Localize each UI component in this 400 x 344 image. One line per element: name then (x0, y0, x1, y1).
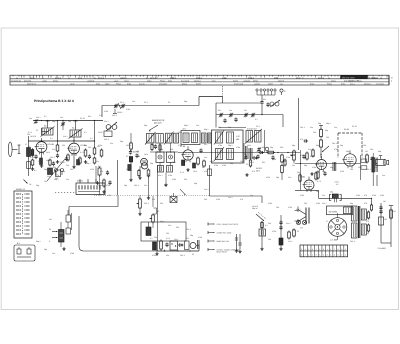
det circle (257, 147, 269, 152)
svg-text:C81: C81 (166, 232, 169, 235)
wire y198 bus (319, 198, 372, 205)
svg-text:GRAM: GRAM (77, 180, 83, 183)
svg-text:BERLIN: BERLIN (55, 76, 62, 79)
wire vertical x79 with bend (79, 216, 158, 251)
wire v2 bottom (73, 154, 75, 165)
tone control arrows (52, 231, 58, 238)
svg-text:BERLI: BERLI (372, 76, 377, 79)
svg-text:22n: 22n (196, 124, 199, 127)
fm box extra caps (223, 114, 262, 123)
box small2 (55, 170, 61, 180)
svg-text:OSLO: OSLO (331, 80, 336, 83)
svg-text:68: 68 (202, 166, 204, 169)
svg-text:22n 1: 22n 1 (288, 240, 293, 243)
svg-text:470k: 470k (214, 164, 218, 167)
svg-text:C81 4: C81 4 (350, 240, 355, 243)
trimmer row top (114, 103, 125, 109)
svg-text:470k: 470k (90, 168, 94, 171)
svg-text:470: 470 (366, 220, 369, 223)
svg-text:470k: 470k (316, 202, 320, 205)
svg-text:68p 2: 68p 2 (262, 146, 267, 149)
svg-text:22n: 22n (292, 228, 295, 231)
det resistor (267, 151, 276, 154)
svg-text:37: 37 (302, 76, 304, 79)
svg-text:22n: 22n (322, 194, 325, 197)
V7 resistors (297, 171, 317, 183)
espeaker cone (298, 207, 306, 225)
svg-text:ZF 46: ZF 46 (352, 125, 357, 128)
svg-text:22n: 22n (44, 180, 47, 183)
svg-text:470k: 470k (178, 144, 182, 147)
osc hatch 2 (167, 166, 173, 173)
svg-text:6: 6 (345, 248, 346, 251)
svg-text:ECH 81: ECH 81 (48, 143, 55, 146)
svg-text:PRAG: PRAG (160, 80, 165, 83)
svg-text:0.1 5: 0.1 5 (166, 237, 170, 240)
wire detector bus y152 (178, 152, 300, 154)
power resistors (288, 229, 296, 240)
wire vert x117.5 (117, 160, 119, 196)
svg-text:1M 4: 1M 4 (144, 153, 148, 156)
svg-text:68p: 68p (160, 148, 163, 151)
svg-text:ZF 46: ZF 46 (126, 155, 131, 158)
svg-text:C81: C81 (140, 166, 143, 169)
svg-text:2: 2 (316, 248, 317, 251)
ground g12 (310, 172, 313, 176)
svg-text:R12: R12 (262, 161, 265, 164)
wire x94 (95, 121, 97, 184)
earphone cylinder (376, 156, 389, 166)
svg-text:BERLIN: BERLIN (248, 76, 255, 79)
capacitor C3 (56, 154, 59, 159)
V5 lower parts (317, 171, 327, 184)
svg-text:C81: C81 (184, 178, 187, 181)
svg-text:68p: 68p (318, 122, 321, 125)
coil L1 label (44, 125, 46, 128)
tube V1 label (48, 143, 55, 146)
svg-text:Prinzipschema B 3 X 42 A: Prinzipschema B 3 X 42 A (34, 99, 75, 103)
dial strip right end cap (389, 75, 393, 85)
wire AVC left (202, 165, 212, 196)
svg-text:1M 4: 1M 4 (68, 149, 72, 152)
wire y206 routing (69, 196, 118, 215)
svg-text:1: 1 (327, 248, 328, 251)
svg-text:22n: 22n (96, 160, 99, 163)
svg-text:68p: 68p (330, 191, 333, 194)
svg-text:2: 2 (323, 254, 324, 257)
cap pair left of legend4 (235, 234, 242, 253)
svg-text:C81: C81 (228, 126, 231, 129)
svg-text:68p 2: 68p 2 (204, 128, 209, 131)
svg-text:28: 28 (380, 76, 382, 79)
svg-text:STAND FM / UKW: STAND FM / UKW (217, 231, 232, 234)
IF coil row box1 (145, 132, 156, 145)
right band extras (300, 149, 378, 191)
svg-text:0.1: 0.1 (50, 137, 53, 140)
svg-text:470k: 470k (356, 194, 360, 197)
svg-text:470k: 470k (218, 144, 222, 147)
small boxes left of winding (361, 155, 367, 180)
right IF labels (247, 125, 260, 147)
svg-text:460 kc/s: 460 kc/s (154, 122, 161, 125)
wire vert x298 top (298, 98, 300, 150)
tube V2 circle (67, 140, 79, 156)
svg-text:22n: 22n (132, 100, 135, 103)
svg-text:470k: 470k (272, 230, 276, 233)
loudspeaker circle (328, 218, 347, 237)
svg-text:68p: 68p (184, 100, 187, 103)
IF output winding bar (372, 153, 377, 181)
drawing number (378, 247, 387, 250)
svg-text:C81: C81 (137, 155, 140, 158)
svg-text:HILVERSUM: HILVERSUM (11, 80, 21, 83)
osc can leads (160, 143, 171, 153)
capacitor C2 (34, 155, 37, 160)
svg-text:MONTE: MONTE (278, 80, 285, 83)
svg-text:68p 2: 68p 2 (54, 178, 59, 181)
wire right bus y163.5 (295, 163, 361, 165)
tube V1 circle (35, 138, 47, 154)
svg-text:LONDON: LONDON (243, 80, 251, 83)
svg-text:22n: 22n (52, 252, 55, 255)
svg-text:BERO: BERO (253, 80, 258, 83)
svg-text:68p: 68p (304, 164, 307, 167)
svg-text:ZF 4: ZF 4 (172, 161, 176, 164)
svg-text:C81: C81 (326, 136, 329, 139)
dial row1 text clusters (30, 76, 377, 79)
ground g7 (129, 133, 132, 182)
pickup block label (77, 180, 83, 183)
legend row 1 (208, 223, 239, 226)
svg-text:22n 1: 22n 1 (104, 120, 109, 123)
svg-text:9: 9 (327, 254, 328, 257)
svg-text:64: 64 (68, 76, 70, 79)
svg-text:C81 4: C81 4 (126, 144, 131, 147)
svg-text:C81 4: C81 4 (104, 138, 109, 141)
mains label (252, 205, 258, 210)
switch box 2 label (17, 242, 21, 245)
resistor R4 (84, 149, 87, 158)
svg-text:0.1: 0.1 (90, 137, 93, 140)
dial station names row 2 (27, 83, 385, 86)
svg-text:5: 5 (319, 248, 320, 251)
det area labels (246, 163, 255, 173)
wire dash pointer (222, 86, 224, 97)
crystal arrow (180, 189, 186, 195)
wire bus step y105.5 (102, 106, 199, 118)
ground g6 (96, 181, 99, 185)
AF output cluster (153, 240, 200, 251)
svg-text:LILL: LILL (280, 83, 283, 86)
det coil bars (249, 148, 252, 159)
svg-text:470: 470 (56, 174, 59, 177)
V6 coil (333, 162, 336, 171)
tube V4 circle (181, 146, 193, 162)
svg-text:470k: 470k (380, 194, 384, 197)
volume pot (291, 150, 296, 164)
svg-text:3: 3 (305, 248, 306, 251)
svg-text:C81: C81 (176, 226, 179, 229)
svg-text:ATHLONE: ATHLONE (159, 83, 168, 86)
svg-text:AD 3700: AD 3700 (329, 210, 338, 213)
tube V6 circle (342, 150, 356, 168)
svg-text:C81: C81 (350, 168, 353, 171)
speaker circle leads (337, 213, 339, 240)
svg-text:68p: 68p (44, 248, 47, 251)
svg-text:37: 37 (42, 76, 44, 79)
AF below-wire labels (152, 253, 195, 257)
netz dropper parts (261, 221, 268, 229)
svg-text:3: 3 (341, 248, 342, 251)
plug symbol P (280, 89, 286, 95)
svg-text:22n 1: 22n 1 (204, 188, 209, 191)
wire v1 bottom (41, 152, 43, 164)
svg-text:0.1: 0.1 (150, 237, 153, 240)
tube V5 circle (315, 156, 327, 172)
svg-text:PRAG: PRAG (116, 83, 121, 86)
svg-text:C81 4: C81 4 (300, 126, 305, 129)
svg-text:ZF 4: ZF 4 (144, 101, 148, 104)
right IF pair (245, 129, 262, 144)
vert stub top2 (74, 121, 78, 131)
svg-text:ZF 46: ZF 46 (80, 117, 85, 120)
svg-text:0.1 5: 0.1 5 (317, 180, 321, 183)
rail labels (383, 200, 396, 213)
svg-text:C81: C81 (316, 190, 319, 193)
tube V7 label (300, 176, 305, 179)
wave band switch box DK/BS (14, 191, 32, 238)
svg-text:PRAG: PRAG (327, 83, 332, 86)
IF amp labels (180, 170, 197, 174)
FM gang circles (270, 100, 280, 107)
svg-text:470: 470 (364, 194, 367, 197)
svg-text:91: 91 (94, 76, 96, 79)
svg-text:68p 2: 68p 2 (86, 162, 91, 165)
svg-text:BAND AM / GO: BAND AM / GO (217, 240, 230, 243)
ground g1 (31, 167, 34, 171)
svg-text:470k: 470k (98, 184, 102, 187)
svg-text:ROM: ROM (168, 80, 173, 83)
espeaker wires (295, 211, 299, 222)
mixer resistors (129, 142, 150, 178)
svg-text:C81: C81 (70, 168, 73, 171)
svg-text:BRUSSE: BRUSSE (24, 80, 32, 83)
coil L2 label (72, 127, 74, 130)
svg-text:BERLI: BERLI (122, 76, 127, 79)
IF can hatch A1 (214, 131, 224, 145)
svg-text:68p 2: 68p 2 (228, 144, 233, 147)
tube V4 label (180, 145, 185, 148)
svg-text:DET.: DET. (256, 169, 261, 172)
svg-text:22n: 22n (110, 142, 113, 145)
svg-text:C81: C81 (160, 202, 163, 205)
svg-text:470k: 470k (222, 164, 226, 167)
resistor R1 (31, 148, 34, 157)
svg-text:R12: R12 (98, 165, 101, 168)
svg-text:MOTALA: MOTALA (364, 83, 372, 86)
svg-text:0.1: 0.1 (44, 115, 47, 118)
det diode 2 (253, 155, 260, 160)
svg-text:C81: C81 (268, 238, 271, 241)
svg-text:22n 1: 22n 1 (174, 238, 179, 241)
svg-text:0.1 5: 0.1 5 (28, 131, 32, 134)
svg-text:4: 4 (345, 254, 346, 257)
svg-text:C81 4: C81 4 (112, 114, 117, 117)
AF grounds (155, 250, 158, 256)
wire AM antenna bus y120.5 (33, 120, 103, 122)
svg-text:22n: 22n (166, 254, 169, 257)
wire vert x377 stub (373, 175, 377, 186)
svg-text:PARIS: PARIS (233, 80, 239, 83)
osc area parts (150, 143, 178, 153)
legend row 3 (208, 240, 229, 243)
svg-text:BERLI: BERLI (296, 76, 301, 79)
svg-text:470: 470 (136, 150, 139, 153)
speaker label box (327, 206, 353, 215)
vibrator component (330, 194, 342, 202)
svg-text:C81: C81 (88, 146, 91, 149)
osc verticals (160, 163, 171, 173)
svg-text:68p: 68p (190, 234, 193, 237)
svg-text:55: 55 (146, 76, 148, 79)
osc coil can 1 (156, 152, 164, 163)
svg-text:22n 1: 22n 1 (63, 135, 68, 138)
svg-text:4: 4 (308, 254, 309, 257)
svg-text:ATHLONE: ATHLONE (376, 83, 385, 86)
arrow marker left margin (24, 180, 32, 187)
svg-text:470k: 470k (340, 170, 344, 173)
tube V3a circle (141, 158, 148, 165)
svg-text:22n: 22n (322, 170, 325, 173)
svg-text:KALUN: KALUN (139, 83, 145, 86)
svg-text:IND BAT GRA PU: IND BAT GRA PU (344, 79, 360, 82)
svg-text:68p 2: 68p 2 (36, 240, 41, 243)
FM box outline (216, 103, 262, 128)
svg-text:7: 7 (305, 254, 306, 257)
V6 resistors (365, 150, 374, 164)
svg-text:1M 4: 1M 4 (46, 159, 50, 162)
mixer grounds (138, 166, 167, 187)
svg-text:S2: S2 (44, 125, 46, 128)
component value labels (28, 108, 387, 255)
dial scale tick marks (13, 75, 387, 77)
svg-text:470k: 470k (362, 144, 366, 147)
svg-text:22n 1: 22n 1 (322, 202, 327, 205)
svg-text:MW KW UKW: MW KW UKW (342, 76, 355, 79)
tube V6 label (344, 125, 357, 131)
det extra (261, 152, 288, 167)
svg-text:C81: C81 (366, 232, 369, 235)
svg-text:0.1: 0.1 (99, 114, 102, 117)
wire grid bus y141 (28, 140, 95, 142)
svg-text:68p: 68p (378, 150, 381, 153)
svg-text:470k: 470k (168, 174, 172, 177)
svg-text:ROM: ROM (341, 83, 346, 86)
ground g8 (147, 174, 150, 200)
osc hatch 1 (158, 166, 164, 173)
svg-text:22n: 22n (334, 126, 337, 129)
svg-text:47: 47 (25, 143, 27, 146)
svg-text:C81: C81 (66, 164, 69, 167)
wire AVC right up (261, 196, 263, 203)
capacitor C6 (65, 157, 80, 166)
svg-text:22n 1: 22n 1 (286, 222, 291, 225)
svg-text:C81: C81 (62, 144, 65, 147)
svg-text:8: 8 (316, 254, 317, 257)
svg-text:460: 460 (236, 138, 239, 141)
svg-text:C81: C81 (370, 148, 373, 151)
svg-text:00: 00 (16, 76, 18, 79)
svg-text:47: 47 (326, 220, 328, 223)
svg-text:0.1: 0.1 (166, 141, 169, 144)
pickup equalizer block (76, 179, 105, 195)
svg-text:22n: 22n (358, 166, 361, 169)
svg-text:0.1 5: 0.1 5 (180, 171, 184, 174)
left cap detail (300, 138, 308, 143)
svg-text:ZF 4: ZF 4 (120, 101, 124, 104)
svg-text:22n 1: 22n 1 (52, 148, 57, 151)
svg-text:0: 0 (338, 248, 339, 251)
svg-text:C81: C81 (38, 160, 41, 163)
svg-text:1M 4: 1M 4 (182, 128, 186, 131)
svg-text:470k: 470k (236, 146, 240, 149)
tone control block (59, 222, 65, 247)
svg-text:22n 1: 22n 1 (158, 174, 163, 177)
IF amp blobs (182, 160, 196, 168)
pickup jacks (53, 166, 64, 175)
svg-text:22n: 22n (204, 156, 207, 159)
svg-text:68p: 68p (346, 150, 349, 153)
svg-text:470k: 470k (126, 108, 130, 111)
loop antenna (8, 142, 20, 157)
svg-text:0.1: 0.1 (255, 118, 258, 121)
mains switch arrow (256, 212, 266, 221)
svg-text:6: 6 (330, 254, 331, 257)
tube V5 label (310, 155, 316, 158)
svg-text:68p: 68p (124, 184, 127, 187)
wire bus y96.5 (199, 97, 223, 106)
IF coil outline box (181, 131, 200, 145)
svg-text:C81: C81 (384, 218, 387, 221)
IF coil row box2 (156, 134, 164, 144)
svg-text:BERL: BERL (78, 76, 82, 79)
tone control parts (62, 210, 70, 251)
svg-text:1M 4: 1M 4 (178, 131, 182, 134)
svg-text:470k: 470k (300, 194, 304, 197)
AF cluster mid (150, 196, 161, 228)
legend row 4 (208, 248, 241, 254)
svg-text:R1: R1 (49, 228, 51, 231)
tube V7 circle (303, 177, 315, 193)
wire vert x157 long (157, 165, 159, 251)
legend row 2 (208, 231, 232, 234)
svg-text:LUXEM: LUXEM (254, 83, 260, 86)
AF pot 1 (137, 196, 142, 216)
svg-text:68p: 68p (316, 144, 319, 147)
svg-text:C81 4: C81 4 (186, 228, 191, 231)
FM dipole antenna (256, 89, 276, 100)
svg-text:68p 2: 68p 2 (184, 124, 189, 127)
resistor R5 (93, 147, 96, 156)
svg-text:470k: 470k (30, 156, 34, 159)
wire bottom bus right part (158, 244, 199, 251)
resistor chain x321 (319, 125, 323, 158)
svg-text:WIJZ. RICHT.: WIJZ. RICHT. (217, 251, 229, 254)
svg-text:22n 1: 22n 1 (36, 116, 41, 119)
svg-text:470k: 470k (172, 178, 176, 181)
mixer labels (137, 155, 172, 177)
svg-text:0: 0 (301, 254, 302, 257)
